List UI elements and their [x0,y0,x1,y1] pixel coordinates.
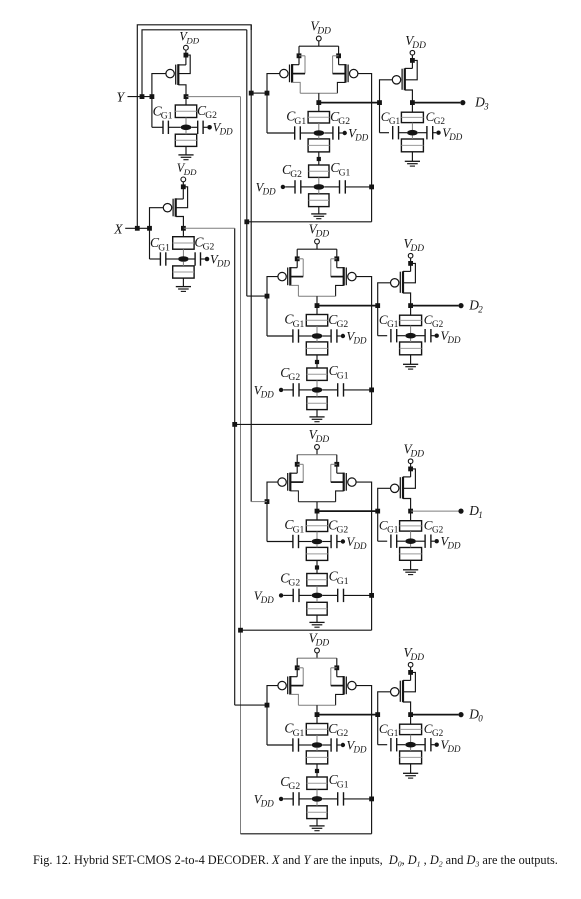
capacitor CG2 plates (Y inverter) [198,121,203,134]
wire node to SET stub (output inverter D0 cell) [410,715,412,725]
power VDD label (output inverter SET D2 cell) [441,329,461,345]
wire SET1 island-box stub (D3 cell) [318,136,320,139]
wire CG2 to VDD (Y inverter) [203,126,207,128]
transistor right PMOS channel (D2 cell) [343,267,345,286]
wire series stub (D1 cell) [316,560,318,573]
wire CG2 left lead (Y inverter) [191,126,197,128]
transistor PMOS gate bar (X inverter) [172,199,174,217]
wire CG2 left lead (SET1 D1 cell) [322,541,331,543]
wire drain tap (right PMOS D3 cell) [337,82,345,93]
svg-text:DD: DD [316,26,331,36]
power VDD label (SET2 D0 cell) [254,792,274,808]
SET tunnel junction upper (output inverter D0 cell) [400,724,422,734]
svg-text:DD: DD [262,186,276,196]
SET1 tunnel junction upper (D1 cell) [306,520,327,532]
wire source tap (right PMOS D3 cell) [339,64,346,66]
label output D0 [468,706,483,723]
wire NAND output stub (D3 cell) [318,93,320,102]
svg-text:G2: G2 [432,525,444,535]
SET tunnel junction upper (output inverter D2 cell) [400,315,422,325]
SET island (output inverter D0 cell) [405,742,416,748]
wire bulk tie (right PMOS D3 cell) [333,56,346,74]
wire SET1 island-box stub (D2 cell) [316,339,318,342]
wire ground stub (SET2 D3 cell) [318,207,320,214]
power VDD dot (SET1 D2 cell) [341,334,345,338]
svg-text:DD: DD [216,258,230,268]
wire source tap (Y inverter PMOS) [178,64,186,66]
label output D3 [474,94,489,111]
node output D0 junction (D0 cell) [408,712,413,717]
label CG2 (SET1 D1 cell) [328,517,348,535]
capacitor CG2 plates (X inverter) [195,252,200,265]
node X input junction 2 [147,226,152,231]
SET1 island (D3 cell) [313,130,324,136]
svg-text:DD: DD [447,744,461,754]
node X input junction 1 [135,226,140,231]
capacitor CG2 plates (output inverter D0 cell) [425,738,431,751]
power VDD label (output inverter SET D1 cell) [441,535,461,551]
wire left gate lead (D0 cell) [267,686,278,745]
capacitor CG2 plates (SET2 D3 cell) [295,180,301,193]
svg-text:G1: G1 [387,319,399,329]
label CG1 (SET2 D2 cell) [329,363,349,381]
wire drain tap (output inverter D1 cell) [403,499,411,512]
wire bulk tie (left PMOS D2 cell) [290,259,303,277]
transistor left PMOS gate bar (D1 cell) [287,473,289,491]
svg-text:DD: DD [410,450,425,460]
wire NAND output stub (D2 cell) [316,296,318,305]
wire CG1 left lead (SET2 D0 cell) [322,798,337,800]
wire SET2 box-island stub (D0 cell) [316,789,318,799]
wire SET2 island-box stub (D1 cell) [316,598,318,602]
wire node to SET stub (output inverter D2 cell) [410,306,412,316]
wire island-box stub (output inverter D0 cell) [410,748,412,752]
wire VDD stub (output inverter D3 cell) [411,55,413,68]
capacitor CG1 plates (SET2 D3 cell) [340,180,346,193]
transistor PMOS channel (output inverter D2 cell) [402,271,404,293]
wire output to SET stub (D0 cell) [316,715,318,724]
svg-text:DD: DD [260,595,274,605]
node inverter gate junction (D3 cell) [377,100,382,105]
wire right gate lead (D2 cell) [356,277,372,425]
transistor PMOS gate bubble (Y inverter) [166,69,174,77]
capacitor CG1 plates (output inverter D3 cell) [393,126,399,139]
power VDD label (output inverter D3 cell) [405,33,426,51]
wire island-junction stub (Y inverter) [185,130,187,134]
svg-text:DD: DD [410,244,425,254]
wire bulk tie (Y inverter PMOS) [178,55,190,74]
wire drain tap (left PMOS D1 cell) [290,491,298,502]
transistor PMOS gate bubble (output inverter D2 cell) [391,279,399,287]
wire VDD stub (output inverter D2 cell) [410,258,412,271]
SET2 tunnel junction upper (D0 cell) [307,777,327,789]
wire VDD rail (D1 cell NAND) [297,454,337,456]
svg-text:DD: DD [315,638,330,648]
SET1 tunnel junction lower (D2 cell) [306,342,327,355]
label CG2 (output inverter SET D3 cell) [426,109,446,126]
wire Y input line [128,96,152,98]
wire CG1 right lead (SET2 D3 cell) [345,186,371,188]
label output D1 [468,503,483,520]
transistor right PMOS gate bubble (D0 cell) [348,681,356,689]
wire CG2 right lead (SET2 D2 cell) [299,389,312,391]
svg-text:G1: G1 [294,116,306,127]
wire CG2 to VDD (SET1 D1 cell) [337,541,341,543]
transistor right PMOS channel (D3 cell) [344,64,346,83]
node series junction (D3 cell) [317,157,321,161]
node VDD junction (output inverter D2 cell) [408,261,413,266]
svg-text:G1: G1 [293,524,305,535]
SET1 tunnel junction upper (D3 cell) [308,112,329,124]
power VDD label (output inverter SET D3 cell) [442,126,462,142]
capacitor CG1 plates (SET1 D3 cell) [295,126,301,139]
transistor PMOS gate bar (output inverter D3 cell) [401,69,403,90]
wire ground stub (Y inverter) [185,146,187,155]
transistor left PMOS channel (D3 cell) [291,64,293,83]
wire CG1 right lead (X inverter) [166,258,178,260]
wire right gate to bus (D0 cell) [241,833,372,835]
SET tunnel junction lower (Y inverter) [175,134,196,146]
svg-text:G2: G2 [203,242,215,253]
SET tunnel junction lower (output inverter D3 cell) [401,139,423,152]
capacitor CG2 plates (SET1 D2 cell) [331,329,337,342]
wire VDD left drop (D2 cell) [296,249,298,268]
capacitor CG2 plates (SET2 D1 cell) [293,589,299,602]
label CG1 (SET1 D1 cell) [284,517,304,535]
wire SET1 box-island stub (D3 cell) [318,123,320,133]
SET2 tunnel junction lower (D2 cell) [307,397,327,410]
power VDD label (D2 cell NAND) [309,221,330,239]
transistor left PMOS gate bubble (D0 cell) [278,681,286,689]
node VDD junction (output inverter D1 cell) [408,467,413,472]
wire bulk tie (output inverter D3 cell) [405,60,417,79]
power VDD terminal (D3 cell NAND) [316,36,321,41]
wire source tap (left PMOS D2 cell) [290,267,297,269]
wire output D0 line [411,714,459,716]
capacitor CG2 plates (output inverter D1 cell) [425,535,431,548]
SET island (output inverter D1 cell) [405,538,416,544]
label CG1 (SET2 D1 cell) [329,569,349,587]
bus X-bar vertical (inverted X) [234,228,236,705]
svg-text:DD: DD [448,132,462,142]
wire ground stub (output inverter D0 cell) [410,764,412,774]
power VDD terminal (D0 cell NAND) [315,648,320,653]
SET2 tunnel junction lower (D0 cell) [307,806,327,819]
SET tunnel junction lower (output inverter D0 cell) [400,751,422,764]
wire gate input (Y inverter) [152,74,166,97]
wire CG2 to VDD (SET1 D2 cell) [337,335,341,337]
wire VDD right drop (D2 cell) [336,249,338,268]
node left gate junction (D3 cell) [265,91,270,96]
node VDD left junction (D2 cell) [295,256,300,261]
wire VDD stub (D3 cell NAND) [318,41,320,46]
node NAND output (D0 cell) [315,712,320,717]
svg-text:G1: G1 [387,728,399,738]
label CG1 (Y inverter) [153,104,173,122]
transistor PMOS channel (X inverter) [175,198,177,216]
label CG1 (SET2 D0 cell) [329,772,349,790]
svg-text:DD: DD [447,541,461,551]
SET tunnel junction upper (Y inverter) [175,105,196,118]
SET island (X inverter) [178,256,189,262]
capacitor CG1 plates (SET2 D0 cell) [338,792,344,805]
power VDD label (SET1 D0 cell) [347,739,367,755]
wire VDD to CG2 (SET2 D3 cell) [285,186,295,188]
label CG2 (SET1 D3 cell) [330,109,350,127]
svg-text:G2: G2 [432,319,444,329]
wire right gate to bus (D1 cell) [241,629,372,631]
node output junction (Y inverter) [184,94,189,99]
wire gate input (X inverter) [150,208,164,229]
power VDD dot (SET1 D1 cell) [341,539,345,543]
svg-text:G2: G2 [288,781,300,792]
wire VDD right drop (D0 cell) [336,658,338,677]
power VDD label (SET1 D1 cell) [347,535,367,551]
wire right gate lead (D3 cell) [358,74,372,222]
wire CG2 left lead (output inverter D1 cell) [416,540,425,542]
wire SET2 island-box stub (D2 cell) [316,393,318,397]
SET tunnel junction upper (output inverter D1 cell) [400,521,422,531]
transistor right PMOS channel (D0 cell) [343,676,345,695]
wire series stub (D3 cell) [318,152,320,165]
node output D3 dot [460,100,465,105]
node right cap junction (D1 cell) [369,593,374,598]
power VDD dot (X inverter CG2) [205,257,210,262]
node left gate junction (D1 cell) [265,499,270,504]
wire source tap (output inverter D2 cell) [403,270,411,272]
wire drain tap (output inverter D2 cell) [403,293,411,306]
wire node to SET stub (output inverter D3 cell) [411,103,413,113]
label CG2 (output inverter SET D1 cell) [424,518,444,535]
wire CG1 right lead (SET2 D2 cell) [344,389,372,391]
svg-text:G2: G2 [337,319,349,330]
power VDD dot (output inverter SET D3 cell) [436,131,440,135]
SET1 tunnel junction upper (D0 cell) [306,724,327,736]
wire CG1 left lead (SET2 D3 cell) [324,186,339,188]
wire CG2 left lead (output inverter D2 cell) [416,335,425,337]
node NAND output (D2 cell) [315,303,320,308]
power VDD dot (output inverter SET D2 cell) [435,334,439,338]
wire ground stub (SET2 D2 cell) [316,410,318,417]
node output junction (X inverter) [181,226,186,231]
wire series stub (D0 cell) [316,764,318,777]
wire gate lead (output inverter D3 cell) [380,80,393,103]
ground (Y inverter) [178,155,193,160]
transistor left PMOS channel (D0 cell) [289,676,291,695]
wire CG1 left lead (SET1 D0 cell) [267,744,293,746]
SET1 island (D0 cell) [312,742,323,748]
wire NAND output stub (D1 cell) [316,502,318,511]
capacitor CG1 plates (SET2 D2 cell) [338,383,344,396]
svg-text:DD: DD [219,127,233,137]
ground (output inverter D1 cell) [403,570,418,575]
node Y input junction 1 [140,94,145,99]
transistor PMOS gate bar (output inverter D0 cell) [399,681,401,702]
wire CG1 left lead (SET1 D1 cell) [267,541,293,543]
wire source tap (output inverter D1 cell) [403,476,411,478]
wire output to bus (X inverter) [183,227,234,229]
node NAND output (D1 cell) [315,509,320,514]
wire source tap (left PMOS D1 cell) [290,472,297,474]
wire VDD stub (D1 cell NAND) [316,449,318,454]
label CG2 (Y inverter) [197,103,217,121]
power VDD dot (SET1 D3 cell) [343,131,347,135]
svg-text:G1: G1 [293,319,305,330]
wire series stub (D2 cell) [316,355,318,368]
wire box-island stub (output inverter D1 cell) [410,531,412,541]
svg-text:G1: G1 [337,779,349,790]
svg-text:DD: DD [447,335,461,345]
bus Y-bar vertical (inverted Y) [240,97,242,834]
node inverter gate junction (D2 cell) [375,303,380,308]
wire box-island stub (output inverter D2 cell) [410,326,412,336]
wire SET2 island-box stub (D0 cell) [316,802,318,806]
wire output stub down (Y inverter) [185,97,187,105]
label CG1 (output inverter SET D3 cell) [381,109,401,126]
wire output to SET stub (D3 cell) [318,103,320,112]
transistor left PMOS channel (D2 cell) [289,267,291,286]
transistor PMOS gate bubble (X inverter) [163,204,171,212]
capacitor CG1 plates (SET1 D2 cell) [293,329,299,342]
node left gate junction (D2 cell) [265,294,270,299]
wire CG1 right lead (Y inverter) [168,126,180,128]
wire source tap (output inverter D0 cell) [403,679,411,681]
power VDD terminal (D2 cell NAND) [315,239,320,244]
wire drain tap (left PMOS D2 cell) [290,285,298,296]
svg-text:DD: DD [353,745,367,755]
power VDD terminal (X inverter) [181,177,186,182]
ground (X inverter) [176,287,191,292]
svg-text:G2: G2 [337,728,349,739]
svg-text:DD: DD [353,336,367,346]
svg-text:G2: G2 [205,110,217,121]
node VDD junction (output inverter D3 cell) [410,58,415,63]
node output D1 dot [458,509,463,514]
wire CG1 right lead (SET1 D2 cell) [299,335,312,337]
node bus junction right gate (D3 cell) [244,219,249,224]
power VDD label (D1 cell NAND) [309,427,330,445]
wire ground stub (SET2 D0 cell) [316,819,318,826]
node series junction (D2 cell) [315,360,319,364]
wire ground stub (output inverter D2 cell) [410,355,412,365]
power VDD terminal (D1 cell NAND) [315,445,320,450]
wire source tap (right PMOS D1 cell) [337,472,344,474]
wire output to SET stub (D2 cell) [316,306,318,315]
wire bulk tie (output inverter D0 cell) [403,672,415,691]
wire CG1 left lead (SET1 D3 cell) [267,132,295,134]
wire island-box stub (output inverter D1 cell) [410,544,412,548]
label CG2 (SET2 D0 cell) [280,774,300,792]
node VDD left junction (D0 cell) [295,665,300,670]
svg-text:G2: G2 [434,116,446,126]
capacitor CG2 plates (output inverter D2 cell) [425,329,431,342]
wire common drain rail (D1 cell) [298,501,335,503]
wire gate lead (output inverter D0 cell) [378,692,391,715]
node inverter gate junction (D0 cell) [375,712,380,717]
svg-text:1: 1 [478,510,483,520]
wire VDD left drop (D0 cell) [296,658,298,677]
wire SET2 box-island stub (D3 cell) [318,177,320,187]
svg-text:DD: DD [315,229,330,239]
SET island (Y inverter) [181,125,192,131]
node right cap junction (D0 cell) [369,797,374,802]
label input Y [117,89,126,104]
wire VDD to CG2 (SET2 D2 cell) [283,389,293,391]
label CG1 (output inverter SET D0 cell) [379,721,399,738]
wire bulk tie (X inverter PMOS) [176,187,188,208]
svg-text:DD: DD [411,41,426,51]
SET island (output inverter D3 cell) [407,130,418,136]
wire right gate lead (D1 cell) [356,482,372,630]
wire Y top route (Y input up and over to right bus) [142,30,247,97]
node right cap junction (D2 cell) [369,388,374,393]
wire drain tap (right PMOS D0 cell) [336,694,344,705]
label CG2 (X inverter) [194,235,214,253]
power VDD label (output inverter D0 cell) [404,645,425,663]
wire bulk tie (left PMOS D1 cell) [290,464,303,482]
wire CG2 to VDD (output inverter D2 cell) [431,335,435,337]
wire VDD to CG2 (SET2 D1 cell) [283,594,293,596]
wire source tap (left PMOS D0 cell) [290,676,297,678]
power VDD dot (output inverter SET D1 cell) [435,539,439,543]
transistor right PMOS gate bar (D0 cell) [345,677,347,695]
node output D2 dot [458,303,463,308]
capacitor CG1 plates (output inverter D1 cell) [391,535,397,548]
wire X input line [125,227,149,229]
wire island-box stub (output inverter D2 cell) [410,339,412,343]
wire left gate to bus (D1 cell) [251,501,267,503]
node output D3 junction (D3 cell) [410,100,415,105]
wire CG2 left lead (SET1 D0 cell) [322,744,331,746]
wire ground stub (output inverter D1 cell) [410,560,412,570]
SET2 tunnel junction upper (D1 cell) [307,574,327,586]
wire right gate lead (D0 cell) [356,686,372,834]
node VDD right junction (D2 cell) [334,256,339,261]
wire gate lead (output inverter D2 cell) [378,283,391,306]
wire drain tap (output inverter D0 cell) [403,702,411,715]
wire CG1 right lead (output inverter D3 cell) [399,132,408,134]
node output D1 junction (D1 cell) [408,509,413,514]
wire NAND output to inverter gate (D2 cell) [319,305,378,307]
transistor right PMOS gate bubble (D2 cell) [348,272,356,280]
svg-text:0: 0 [478,713,483,723]
capacitor CG1 plates (X inverter) [160,252,165,265]
wire output to SET stub (D1 cell) [316,511,318,520]
label CG2 (SET2 D3 cell) [282,162,302,180]
node bus junction left gate (D3 cell) [249,91,254,96]
wire CG2 left lead (SET1 D3 cell) [324,132,333,134]
wire SET2 island-box stub (D3 cell) [318,190,320,194]
wire CG1 right lead (output inverter D0 cell) [397,744,406,746]
wire right gate to bus (D3 cell) [247,221,372,223]
svg-text:Fig. 12. Hybrid SET-CMOS 2-to-: Fig. 12. Hybrid SET-CMOS 2-to-4 DECODER.… [33,853,558,869]
SET2 island (D3 cell) [313,184,324,190]
wire left gate to bus (D2 cell) [247,295,267,297]
ground (output inverter D3 cell) [405,161,420,166]
label CG1 (SET1 D3 cell) [286,109,306,127]
node VDD right junction (D0 cell) [334,665,339,670]
node VDD right junction (D3 cell) [336,53,341,58]
wire VDD right drop (D3 cell) [338,46,340,64]
wire NAND output to inverter gate (D3 cell) [321,102,380,104]
wire CG1 left lead (X inverter) [150,228,161,259]
wire CG2 left lead (SET1 D2 cell) [322,335,331,337]
svg-text:G2: G2 [432,728,444,738]
wire NAND output stub (D0 cell) [316,705,318,714]
wire left gate lead (D1 cell) [267,482,278,541]
wire SET2 box-island stub (D2 cell) [316,380,318,390]
power VDD terminal (output inverter D3 cell) [410,50,415,55]
